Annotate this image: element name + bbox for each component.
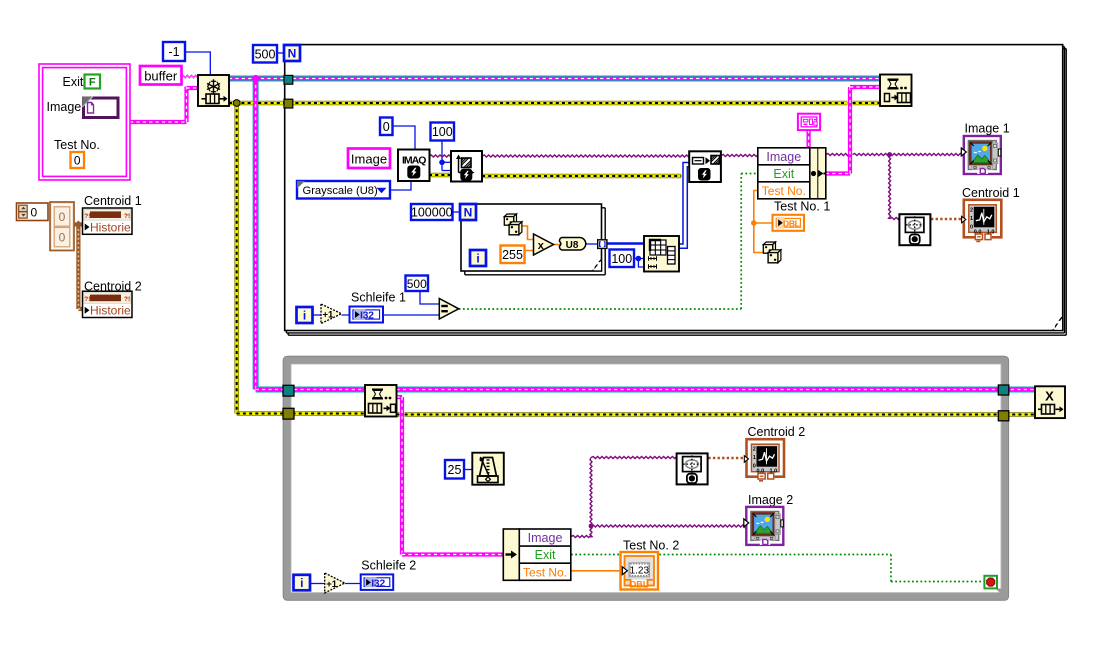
svg-text:2: 2	[970, 207, 973, 213]
svg-text:Image: Image	[351, 152, 387, 167]
svg-text:2: 2	[753, 447, 756, 453]
while loop 2 frame	[283, 356, 1008, 600]
svg-text:Exit: Exit	[773, 167, 794, 181]
numeric constant 255	[501, 246, 525, 264]
2D array wire to array-to-image	[679, 163, 689, 249]
svg-text:N: N	[464, 206, 473, 220]
label Test No. 2	[623, 539, 679, 553]
wire 100 to image size inputs	[439, 141, 451, 171]
numeric constant 0	[71, 152, 85, 168]
svg-text:255: 255	[502, 248, 523, 262]
wire i +1 schleife1 equals	[313, 314, 440, 316]
svg-text:1: 1	[753, 455, 756, 461]
wire 500 to N	[277, 52, 284, 54]
svg-text:Image: Image	[47, 100, 82, 114]
svg-text:0: 0	[59, 231, 66, 245]
equal function	[439, 299, 458, 320]
svg-text:Image 2: Image 2	[748, 493, 793, 507]
svg-text:1.23: 1.23	[630, 566, 650, 577]
indicator Schleife 1	[350, 291, 406, 323]
svg-text:Test No. 1: Test No. 1	[774, 200, 830, 214]
wire -1 to obtain queue	[185, 52, 210, 75]
svg-text:0: 0	[753, 464, 756, 470]
numeric constant 100000	[411, 204, 453, 220]
wire 100000 to inner N	[453, 211, 460, 213]
image wire unbundle to centroid2/image2	[571, 457, 745, 538]
svg-text:+1: +1	[323, 310, 335, 321]
centroid1 data wire	[931, 218, 964, 221]
svg-text:I32: I32	[360, 310, 374, 322]
svg-text:+1: +1	[326, 579, 338, 590]
svg-text:100000: 100000	[411, 206, 453, 220]
svg-text:Centroid 1: Centroid 1	[84, 194, 142, 208]
svg-text:U8: U8	[566, 240, 579, 251]
svg-text:Exit: Exit	[63, 75, 84, 89]
wire grayscale enum to IMAQ create	[390, 181, 411, 190]
svg-text:Schleife 1: Schleife 1	[351, 291, 406, 305]
queue refnum wire	[229, 75, 1035, 390]
svg-text:?!: ?!	[124, 213, 130, 220]
svg-text:100: 100	[432, 125, 453, 139]
indicator chart Centroid 2	[744, 425, 805, 481]
label Image	[47, 100, 82, 114]
numeric constant 0b	[380, 118, 393, 136]
history indicator Centroid 2	[83, 280, 142, 318]
unbundle by name node	[503, 529, 571, 580]
1D array wire to reshape	[607, 242, 644, 245]
cluster wire from Exit/Image/TestNo cluster	[130, 87, 198, 123]
inner loop count terminal N	[460, 204, 476, 220]
svg-text:0: 0	[74, 154, 81, 168]
loop1 iteration terminal	[297, 307, 313, 323]
svg-text:Image 1: Image 1	[965, 122, 1010, 136]
svg-text:1: 1	[970, 216, 973, 222]
svg-text:Test No.: Test No.	[523, 565, 567, 579]
enum constant Grayscale U8	[297, 181, 390, 199]
history cluster wire	[74, 221, 83, 309]
svg-text:?!: ?!	[124, 296, 130, 303]
inner loop iteration terminal	[470, 250, 486, 266]
svg-text:i: i	[303, 309, 306, 323]
enqueue element icon	[880, 75, 912, 107]
indicator Image 2	[744, 493, 793, 545]
inner for loop frame (N=100000)	[461, 204, 605, 275]
error cluster wire	[229, 100, 1035, 415]
svg-text:buffer: buffer	[144, 69, 178, 84]
obtain queue icon	[198, 75, 229, 106]
svg-text:100: 100	[611, 252, 632, 266]
svg-text:0: 0	[59, 210, 66, 224]
increment function 1	[321, 304, 342, 324]
svg-text:Test No. 2: Test No. 2	[623, 539, 679, 553]
boolean wire to stop terminal	[571, 555, 984, 582]
string constant buffer	[140, 66, 182, 85]
numeric constant -1	[163, 42, 185, 61]
loop2 iteration terminal	[294, 575, 311, 591]
numeric constant 500	[253, 45, 277, 63]
IMAQ error wire	[429, 175, 689, 176]
label Test No. 1	[774, 200, 830, 214]
cluster wire bundle to enqueue	[826, 87, 880, 174]
wire test no 2	[571, 570, 622, 572]
svg-text:Historie: Historie	[90, 220, 131, 234]
svg-text:N: N	[288, 47, 297, 61]
svg-text:?!: ?!	[84, 296, 90, 303]
array index spinner	[17, 203, 49, 221]
history indicator Centroid 1	[83, 194, 142, 234]
label Test No.	[54, 138, 100, 152]
wire 0 to IMAQ create	[392, 126, 415, 150]
IMAQ Create icon	[398, 150, 430, 182]
svg-text:500: 500	[255, 47, 276, 61]
to U8 conversion	[560, 238, 586, 252]
svg-text:i: i	[476, 252, 479, 266]
cluster wire dequeue to unbundle	[397, 397, 504, 555]
wait ms metronome icon	[472, 453, 504, 485]
IMAQ centroid icon 1	[899, 214, 930, 245]
string constant Image	[348, 149, 390, 169]
numeric constant 500b	[406, 276, 429, 292]
wire 25 to wait	[464, 469, 472, 471]
indicator Test No. 2 DBL	[621, 552, 659, 590]
IMAQ set image size icon	[451, 151, 482, 182]
svg-text:0: 0	[970, 224, 973, 230]
for loop 1 frame (N=500)	[285, 45, 1066, 336]
indicator chart Centroid 1	[962, 186, 1020, 241]
auto-index tunnel	[598, 240, 607, 249]
wire random to test no	[751, 191, 773, 253]
indicator Image 1	[961, 122, 1009, 175]
numeric constant 25	[445, 460, 464, 479]
svg-text:F: F	[89, 77, 96, 89]
svg-text:-1: -1	[168, 45, 179, 59]
string wire buffer	[181, 75, 198, 77]
multiply function	[534, 234, 554, 255]
label Exit	[63, 75, 84, 89]
wire i +1 schleife2	[310, 583, 361, 585]
svg-text:Grayscale (U8): Grayscale (U8)	[303, 185, 378, 197]
svg-text:Image: Image	[766, 150, 801, 164]
svg-text:x: x	[538, 240, 545, 252]
svg-text:IMAQ: IMAQ	[402, 154, 426, 166]
indicator Test No. 1 DBL	[773, 215, 805, 231]
loop1 count terminal N	[284, 45, 300, 61]
bundle by name node	[758, 148, 826, 199]
numeric constant 100b	[610, 250, 635, 268]
image constant icon	[82, 97, 118, 118]
wire U8 to tunnel	[584, 243, 598, 245]
svg-text:I32: I32	[371, 578, 385, 590]
svg-text:0: 0	[31, 206, 38, 220]
svg-text:Schleife 2: Schleife 2	[361, 559, 416, 573]
local variable icon	[798, 114, 820, 130]
svg-text:500: 500	[407, 277, 427, 291]
boolean constant F	[85, 75, 101, 89]
loop2 right tunnels	[998, 385, 1009, 421]
numeric constant 100	[431, 123, 455, 141]
svg-text:Test No.: Test No.	[762, 184, 806, 198]
random number dice 1	[504, 214, 522, 235]
reshape array icon	[644, 236, 679, 272]
IMAQ centroid icon 2	[677, 453, 708, 484]
release queue icon	[1035, 386, 1065, 418]
array constant	[50, 202, 74, 251]
random number dice 2	[763, 242, 781, 263]
IMAQ image wire chain loop1	[429, 152, 963, 219]
svg-text:Image: Image	[528, 531, 563, 545]
svg-text:?!: ?!	[84, 213, 90, 220]
svg-text:Historie: Historie	[90, 304, 131, 318]
svg-text:X: X	[1045, 389, 1054, 404]
wire 500 to equals	[420, 291, 439, 304]
stop terminal	[984, 576, 997, 589]
wire 100 to reshape	[634, 256, 644, 267]
svg-text:DBL: DBL	[783, 218, 800, 228]
svg-text:Centroid 2: Centroid 2	[748, 425, 806, 439]
loop2 left tunnels	[283, 385, 294, 419]
centroid2 data wire	[708, 457, 746, 460]
svg-text:Centroid 1: Centroid 1	[962, 186, 1020, 200]
svg-text:Test No.: Test No.	[54, 138, 100, 152]
svg-text:DBL: DBL	[630, 579, 649, 589]
array to image icon	[689, 151, 721, 182]
wires random x 255	[522, 226, 561, 251]
svg-text:Exit: Exit	[535, 548, 556, 562]
svg-text:0: 0	[383, 120, 390, 134]
cluster constant frame Exit/Image/TestNo	[39, 64, 130, 180]
increment function 2	[325, 573, 345, 593]
cluster wire local var to bundle	[806, 130, 810, 148]
boolean wire equals to bundle	[459, 174, 758, 310]
svg-text:i: i	[300, 576, 303, 590]
svg-text:25: 25	[448, 463, 462, 477]
loop1 left tunnels	[284, 75, 293, 108]
dequeue element icon	[365, 385, 397, 417]
indicator Schleife 2	[361, 559, 417, 590]
